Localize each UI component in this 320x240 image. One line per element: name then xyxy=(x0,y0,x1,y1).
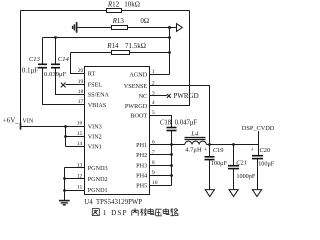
svg-text:R13: R13 xyxy=(112,17,125,25)
svg-text:PGND3: PGND3 xyxy=(88,165,108,172)
svg-text:+: + xyxy=(250,147,254,154)
svg-text:14: 14 xyxy=(77,141,83,147)
svg-text:10kΩ: 10kΩ xyxy=(124,1,140,9)
svg-text:12: 12 xyxy=(77,173,83,179)
svg-text:VIN2: VIN2 xyxy=(88,134,102,141)
svg-text:PGND1: PGND1 xyxy=(88,187,108,194)
svg-text:BOOT: BOOT xyxy=(130,113,147,120)
svg-text:C18: C18 xyxy=(160,120,172,127)
svg-text:11: 11 xyxy=(77,185,83,191)
svg-text:16: 16 xyxy=(77,121,83,127)
svg-text:2: 2 xyxy=(152,80,155,86)
svg-text:DSP: DSP xyxy=(111,209,128,217)
svg-text:0.047μF: 0.047μF xyxy=(175,120,198,127)
svg-text:PH1: PH1 xyxy=(136,142,147,149)
svg-text:15: 15 xyxy=(77,131,83,137)
svg-text:0.1μF: 0.1μF xyxy=(22,66,39,74)
svg-text:17: 17 xyxy=(78,99,84,105)
svg-text:NC: NC xyxy=(139,93,148,100)
svg-text:PH2: PH2 xyxy=(136,152,147,159)
svg-text:AGND: AGND xyxy=(129,72,147,79)
svg-text:C14: C14 xyxy=(58,56,70,63)
svg-text:FSEL: FSEL xyxy=(88,82,103,89)
svg-text:100μF: 100μF xyxy=(258,161,275,168)
svg-text:L4: L4 xyxy=(190,130,199,137)
svg-text:R14: R14 xyxy=(106,42,119,50)
svg-text:R12: R12 xyxy=(107,1,120,9)
svg-text:1: 1 xyxy=(152,69,155,75)
svg-text:C13: C13 xyxy=(29,56,41,63)
svg-text:C21: C21 xyxy=(236,159,247,166)
svg-text:U4 TPS543129PWP: U4 TPS543129PWP xyxy=(84,199,142,206)
svg-text:20: 20 xyxy=(78,68,84,74)
svg-text:1: 1 xyxy=(103,209,107,217)
svg-text:0Ω: 0Ω xyxy=(140,17,149,25)
svg-text:DSP_CVDD: DSP_CVDD xyxy=(242,125,275,132)
svg-text:RT: RT xyxy=(88,71,96,78)
svg-text:4: 4 xyxy=(152,100,155,106)
svg-text:PWRGD: PWRGD xyxy=(125,103,148,110)
svg-text:5: 5 xyxy=(152,110,155,116)
svg-text:0.039μF: 0.039μF xyxy=(44,71,67,78)
svg-text:13: 13 xyxy=(77,162,83,168)
svg-text:10: 10 xyxy=(152,180,158,186)
svg-text:+: + xyxy=(204,147,208,154)
svg-text:VSENSE: VSENSE xyxy=(124,83,148,90)
svg-text:VBIAS: VBIAS xyxy=(88,102,107,109)
svg-text:VIN: VIN xyxy=(22,119,33,125)
svg-text:6: 6 xyxy=(152,139,155,145)
svg-text:C19: C19 xyxy=(213,147,224,154)
svg-text:C20: C20 xyxy=(259,147,270,154)
svg-text:PH3: PH3 xyxy=(136,163,147,170)
svg-text:4.7μH: 4.7μH xyxy=(185,146,202,153)
svg-text:SS/ENA: SS/ENA xyxy=(88,92,110,99)
svg-text:100μF: 100μF xyxy=(211,160,228,167)
svg-text:PGND2: PGND2 xyxy=(88,176,108,183)
svg-text:8: 8 xyxy=(152,160,155,166)
svg-text:7: 7 xyxy=(152,149,155,155)
svg-text:VIN1: VIN1 xyxy=(88,144,102,151)
svg-text:18: 18 xyxy=(78,89,84,95)
svg-text:1000pF: 1000pF xyxy=(236,173,255,180)
svg-text:71.5kΩ: 71.5kΩ xyxy=(125,42,146,50)
svg-text:VIN3: VIN3 xyxy=(88,123,102,130)
svg-text:9: 9 xyxy=(152,170,155,176)
svg-text:3: 3 xyxy=(152,90,155,96)
svg-text:PH4: PH4 xyxy=(136,173,147,180)
svg-text:PH5: PH5 xyxy=(136,183,147,190)
svg-text:PWRGD: PWRGD xyxy=(173,92,198,100)
svg-text:+6V_: +6V_ xyxy=(3,118,19,125)
svg-text:19: 19 xyxy=(78,79,84,85)
